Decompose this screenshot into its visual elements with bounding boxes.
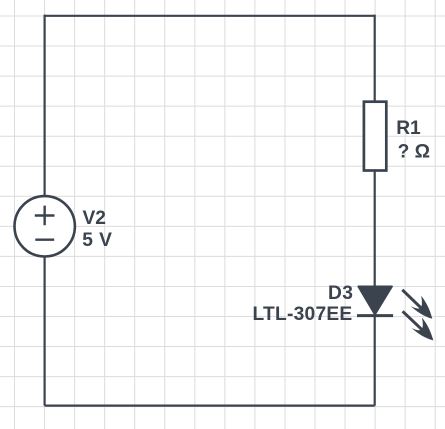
LED light arrow 1 <box>398 284 438 324</box>
svg-text:? Ω: ? Ω <box>398 141 430 162</box>
wire left lower <box>43 256 45 405</box>
svg-text:R1: R1 <box>396 118 421 139</box>
svg-text:D3: D3 <box>328 283 353 304</box>
wire top <box>45 15 375 17</box>
svg-text:V2: V2 <box>83 208 106 229</box>
voltage source V2 <box>15 196 75 256</box>
svg-text:LTL-307EE: LTL-307EE <box>253 304 353 325</box>
wire bottom <box>45 405 375 407</box>
resistor R1 <box>364 102 386 171</box>
LED D3 triangle <box>358 287 392 315</box>
svg-text:5 V: 5 V <box>82 230 112 251</box>
wire right upper <box>374 15 376 102</box>
wire left upper <box>43 15 45 197</box>
wire right middle <box>374 171 376 291</box>
LED light arrow 2 <box>399 305 440 345</box>
LED D3 cathode bar <box>357 314 393 317</box>
wire right lower <box>374 316 376 406</box>
